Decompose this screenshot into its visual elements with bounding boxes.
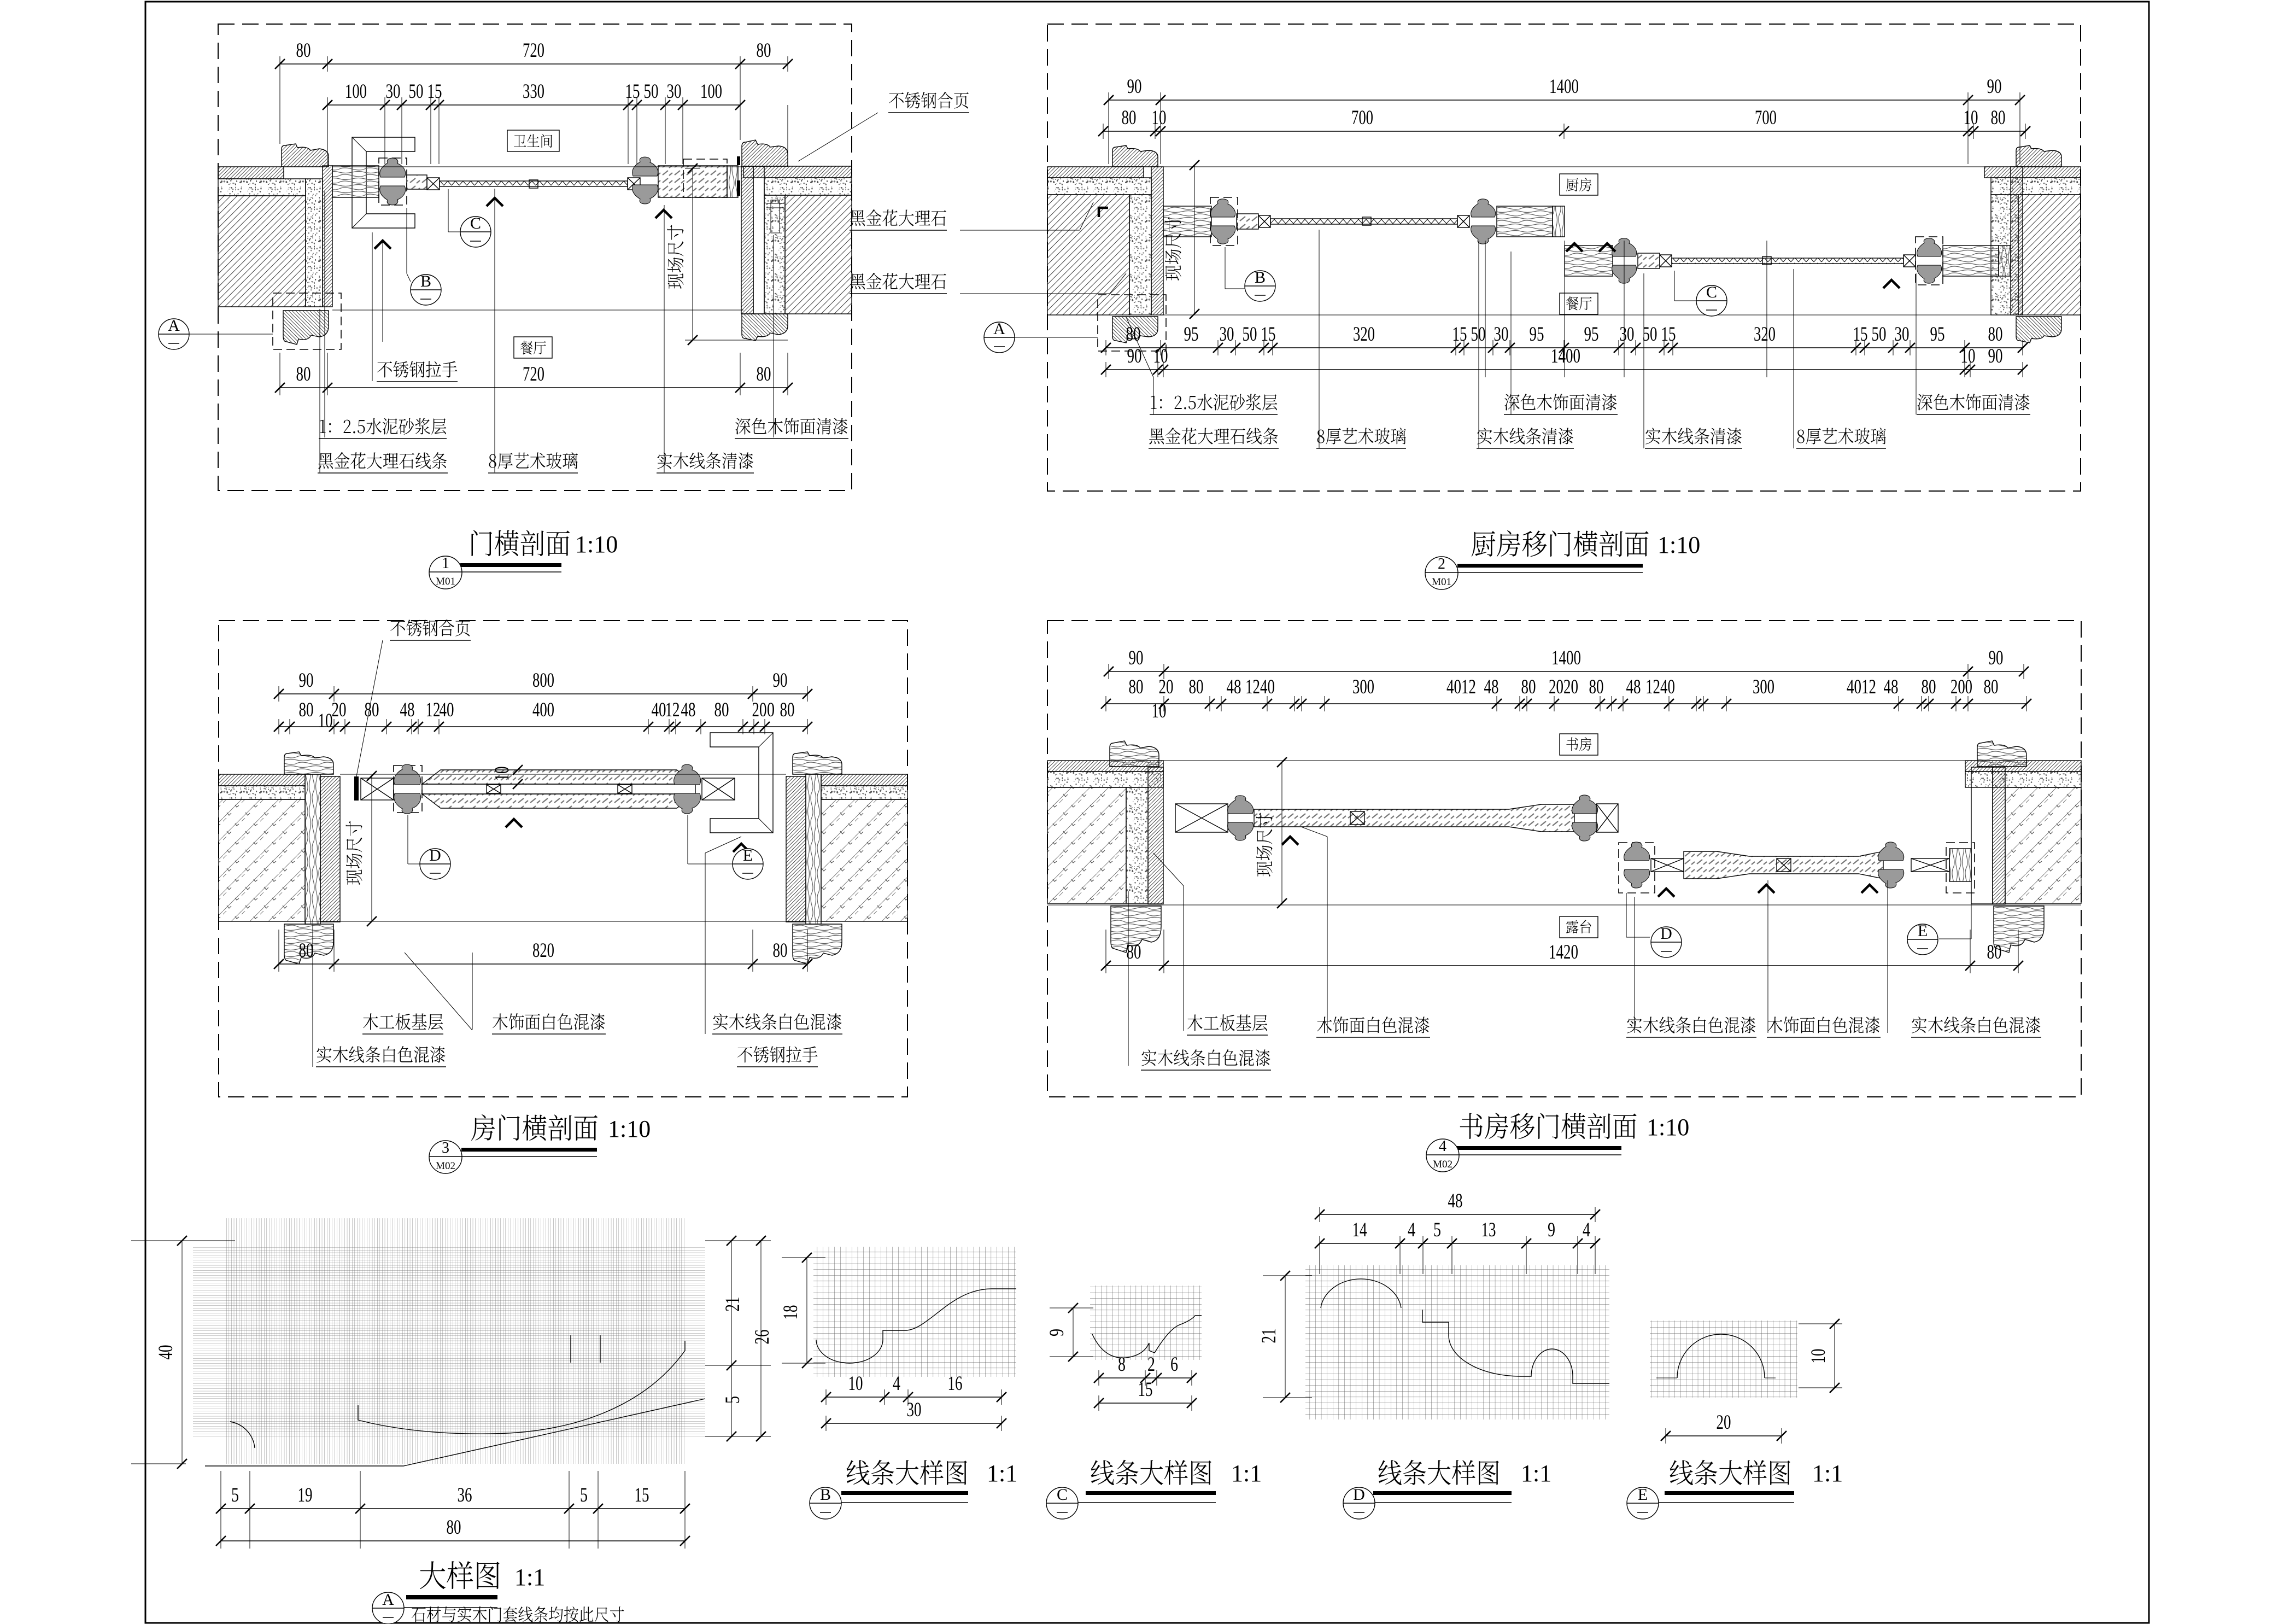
svg-text:100: 100: [345, 80, 367, 103]
svg-text:90: 90: [1127, 345, 1142, 367]
svg-text:800: 800: [532, 669, 554, 692]
svg-text:C: C: [1057, 1486, 1068, 1504]
svg-text:30: 30: [1220, 323, 1234, 346]
svg-text:E: E: [1918, 922, 1928, 940]
svg-text:100: 100: [700, 80, 722, 103]
svg-text:1240: 1240: [1245, 676, 1275, 698]
svg-text:320: 320: [1754, 323, 1776, 346]
svg-text:10: 10: [491, 767, 513, 781]
svg-text:80: 80: [714, 699, 729, 721]
svg-text:18: 18: [780, 1305, 802, 1320]
svg-text:C: C: [1706, 283, 1717, 301]
svg-text:12: 12: [665, 699, 680, 721]
svg-text:80: 80: [1984, 676, 1999, 698]
svg-text:15: 15: [1853, 323, 1868, 346]
svg-text:4: 4: [1439, 1138, 1446, 1155]
svg-text:1420: 1420: [1549, 941, 1578, 963]
svg-text:330: 330: [523, 80, 544, 103]
svg-text:90: 90: [1129, 647, 1144, 669]
svg-text:90: 90: [1987, 75, 2002, 98]
svg-text:300: 300: [1753, 676, 1774, 698]
svg-text:30: 30: [907, 1399, 922, 1421]
svg-text:20: 20: [332, 699, 347, 721]
svg-text:10: 10: [1153, 345, 1168, 367]
svg-text:30: 30: [1895, 323, 1910, 346]
svg-text:21: 21: [1258, 1329, 1280, 1343]
svg-text:80: 80: [1521, 676, 1536, 698]
svg-text:80: 80: [1922, 676, 1936, 698]
svg-text:30: 30: [386, 80, 401, 103]
svg-text:15: 15: [1261, 323, 1276, 346]
svg-text:80: 80: [296, 363, 311, 385]
svg-text:15: 15: [427, 80, 442, 103]
svg-text:80: 80: [1122, 107, 1137, 129]
svg-text:4012: 4012: [1446, 676, 1476, 698]
svg-text:48: 48: [1626, 676, 1641, 698]
svg-text:320: 320: [1353, 323, 1375, 346]
svg-text:1: 1: [442, 555, 449, 572]
svg-text:80: 80: [365, 699, 379, 721]
svg-text:300: 300: [1352, 676, 1374, 698]
svg-text:C: C: [470, 214, 481, 232]
svg-text:5: 5: [722, 1396, 744, 1404]
svg-text:48: 48: [1884, 676, 1899, 698]
svg-text:90: 90: [1127, 75, 1142, 98]
svg-text:1:10: 1:10: [1657, 531, 1700, 558]
svg-text:1400: 1400: [1551, 647, 1581, 669]
svg-text:D: D: [429, 846, 441, 864]
svg-text:A: A: [382, 1591, 394, 1609]
svg-text:80: 80: [780, 699, 795, 721]
svg-text:80: 80: [1589, 676, 1604, 698]
svg-text:15: 15: [1452, 323, 1467, 346]
svg-text:2: 2: [1438, 556, 1445, 573]
svg-text:14: 14: [1352, 1219, 1367, 1241]
svg-text:820: 820: [532, 939, 554, 962]
svg-text:80: 80: [299, 699, 314, 721]
svg-text:1400: 1400: [1549, 75, 1579, 98]
svg-text:16: 16: [948, 1372, 963, 1395]
svg-text:M02: M02: [436, 1160, 455, 1172]
svg-text:4012: 4012: [1847, 676, 1876, 698]
svg-text:80: 80: [773, 939, 788, 962]
svg-text:10: 10: [1961, 345, 1976, 367]
svg-text:1:10: 1:10: [608, 1115, 651, 1142]
svg-text:30: 30: [1494, 323, 1509, 346]
svg-text:21: 21: [722, 1297, 744, 1312]
svg-text:15: 15: [1138, 1378, 1153, 1401]
svg-text:B: B: [820, 1486, 831, 1504]
svg-text:1:1: 1:1: [1521, 1460, 1551, 1487]
svg-text:B: B: [420, 272, 431, 290]
svg-text:48: 48: [1484, 676, 1499, 698]
svg-text:720: 720: [523, 39, 544, 62]
svg-text:80: 80: [447, 1516, 461, 1539]
svg-text:10: 10: [1807, 1349, 1830, 1364]
svg-text:80: 80: [1189, 676, 1204, 698]
svg-text:M02: M02: [1433, 1159, 1452, 1170]
svg-text:50: 50: [409, 80, 424, 103]
svg-text:80: 80: [1988, 323, 2003, 346]
svg-text:6: 6: [1170, 1353, 1178, 1376]
svg-text:8: 8: [1118, 1353, 1126, 1376]
svg-text:95: 95: [1584, 323, 1599, 346]
svg-text:26: 26: [751, 1330, 774, 1345]
svg-text:1240: 1240: [1645, 676, 1675, 698]
svg-text:5: 5: [1433, 1219, 1441, 1241]
svg-text:80: 80: [296, 39, 311, 62]
svg-text:15: 15: [1661, 323, 1676, 346]
svg-text:90: 90: [773, 669, 788, 692]
svg-text:48: 48: [400, 699, 415, 721]
svg-text:80: 80: [1126, 323, 1141, 346]
svg-text:B: B: [1255, 268, 1266, 287]
svg-text:13: 13: [1481, 1219, 1496, 1241]
svg-text:20: 20: [752, 699, 767, 721]
svg-text:48: 48: [1227, 676, 1241, 698]
svg-text:95: 95: [1530, 323, 1544, 346]
svg-text:40: 40: [155, 1345, 177, 1360]
svg-text:1400: 1400: [1551, 345, 1580, 367]
svg-text:40: 40: [652, 699, 666, 721]
svg-text:3: 3: [442, 1140, 449, 1156]
svg-text:80: 80: [1987, 941, 2002, 963]
svg-text:720: 720: [523, 363, 544, 385]
svg-text:400: 400: [532, 699, 554, 721]
svg-text:1:10: 1:10: [575, 531, 618, 558]
svg-text:1:1: 1:1: [1231, 1460, 1262, 1487]
svg-text:10: 10: [848, 1372, 863, 1395]
svg-text:700: 700: [1755, 107, 1777, 129]
svg-text:M01: M01: [1432, 576, 1451, 588]
svg-text:48: 48: [1448, 1190, 1463, 1212]
svg-text:80: 80: [757, 363, 771, 385]
svg-text:M01: M01: [436, 576, 455, 587]
svg-text:48: 48: [681, 699, 696, 721]
svg-text:1:10: 1:10: [1647, 1114, 1689, 1141]
svg-text:15: 15: [625, 80, 640, 103]
svg-text:D: D: [1353, 1486, 1365, 1504]
svg-text:4: 4: [893, 1372, 900, 1395]
svg-text:36: 36: [458, 1484, 472, 1506]
svg-text:50: 50: [1471, 323, 1486, 346]
svg-text:10: 10: [1964, 107, 1978, 129]
svg-text:90: 90: [1989, 647, 2004, 669]
svg-text:80: 80: [1129, 676, 1144, 698]
svg-text:9: 9: [1046, 1329, 1068, 1336]
svg-text:50: 50: [644, 80, 659, 103]
svg-text:9: 9: [1548, 1219, 1555, 1241]
svg-text:D: D: [1660, 925, 1672, 943]
svg-text:10: 10: [318, 710, 333, 732]
svg-text:1:1: 1:1: [514, 1564, 545, 1591]
svg-text:1:1: 1:1: [1812, 1460, 1843, 1487]
svg-text:80: 80: [1991, 107, 2006, 129]
svg-text:E: E: [1638, 1486, 1648, 1504]
svg-text:15: 15: [635, 1484, 649, 1506]
svg-text:20: 20: [1159, 676, 1174, 698]
svg-text:80: 80: [1127, 941, 1141, 963]
svg-text:95: 95: [1930, 323, 1945, 346]
svg-text:20: 20: [1717, 1411, 1731, 1434]
svg-text:5: 5: [231, 1484, 239, 1506]
svg-text:1:1: 1:1: [987, 1460, 1017, 1487]
svg-text:30: 30: [1620, 323, 1635, 346]
svg-text:A: A: [168, 317, 180, 335]
svg-text:90: 90: [1988, 345, 2003, 367]
svg-text:50: 50: [1643, 323, 1657, 346]
svg-text:19: 19: [298, 1484, 313, 1506]
svg-text:95: 95: [1184, 323, 1199, 346]
svg-text:40: 40: [440, 699, 454, 721]
svg-text:200: 200: [1951, 676, 1972, 698]
svg-text:2: 2: [1147, 1353, 1155, 1376]
svg-text:10: 10: [1152, 700, 1167, 722]
svg-text:2020: 2020: [1549, 676, 1578, 698]
svg-text:5: 5: [580, 1484, 588, 1506]
svg-text:4: 4: [1408, 1219, 1415, 1241]
svg-text:10: 10: [1152, 107, 1167, 129]
svg-text:80: 80: [299, 939, 314, 962]
svg-text:0: 0: [767, 699, 775, 721]
svg-text:50: 50: [1243, 323, 1257, 346]
svg-text:12: 12: [426, 699, 441, 721]
svg-text:50: 50: [1872, 323, 1887, 346]
svg-text:A: A: [993, 320, 1005, 338]
svg-text:80: 80: [757, 39, 771, 62]
svg-text:4: 4: [1583, 1219, 1590, 1241]
svg-text:30: 30: [667, 80, 682, 103]
svg-text:90: 90: [299, 669, 314, 692]
svg-text:700: 700: [1351, 107, 1373, 129]
svg-text:E: E: [743, 846, 753, 864]
